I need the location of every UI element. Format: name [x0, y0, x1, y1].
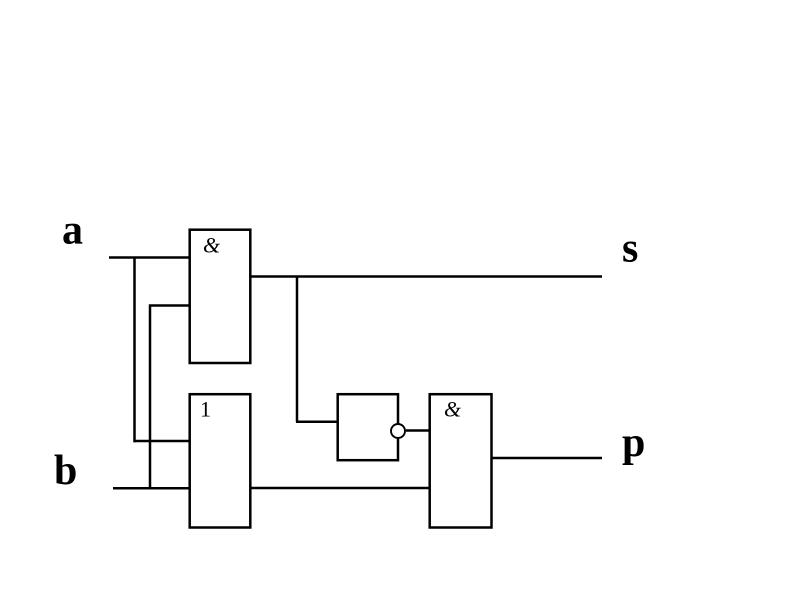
svg-text:b: b — [54, 448, 77, 494]
svg-text:s: s — [622, 226, 638, 272]
svg-text:a: a — [62, 208, 83, 254]
svg-text:p: p — [622, 420, 645, 466]
svg-text:1: 1 — [200, 397, 211, 422]
svg-text:&: & — [203, 232, 221, 257]
svg-text:&: & — [444, 397, 462, 422]
